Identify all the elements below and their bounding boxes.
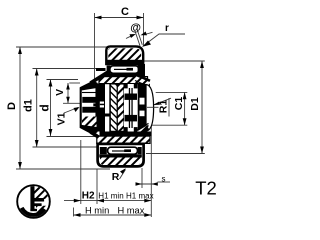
detail bottom arc <box>21 208 44 215</box>
svg-text:r: r <box>165 23 169 34</box>
arrow C1 top <box>183 92 187 99</box>
bore strip top-right bit <box>134 84 138 88</box>
ext line H left x73.5 <box>73 208 75 217</box>
set screw upper bar <box>125 94 138 100</box>
svg-text:s: s <box>162 174 166 183</box>
core bore strip with set screw I-beam <box>124 84 138 132</box>
seal right blob top <box>138 64 145 75</box>
dim d1 line <box>36 69 38 148</box>
raceway band bottom <box>99 154 142 157</box>
collar lower hatch <box>82 117 97 133</box>
outer ring bottom block <box>98 144 144 167</box>
dim V bottom extension <box>63 102 80 104</box>
svg-text:H1 min: H1 min <box>98 192 123 201</box>
bore strip bottom-right bit <box>134 127 138 131</box>
dim D1 line <box>201 61 203 154</box>
svg-text:R: R <box>112 171 120 183</box>
svg-text:H1 max: H1 max <box>126 192 154 201</box>
dim V top extension <box>69 82 80 84</box>
collar junction band B top <box>81 82 97 91</box>
core white strip borders <box>105 84 110 132</box>
collar junction band A bottom <box>90 130 108 145</box>
dim d bottom extension <box>47 136 98 138</box>
dim D top extension <box>16 46 118 48</box>
dim C right extension <box>143 13 145 46</box>
top seal row <box>104 64 146 77</box>
step black top <box>96 68 106 71</box>
seal left blob top <box>107 66 111 74</box>
core hatch left column (inner ring section) <box>110 84 117 131</box>
arrow R1 slant tip <box>153 102 160 105</box>
dim d1 bottom extension <box>33 146 99 148</box>
ext line x151.3 <box>150 123 152 217</box>
dim D1 bottom extension <box>146 153 205 155</box>
dim V line <box>67 83 69 103</box>
flinger top thin slant <box>135 81 150 88</box>
collar set screw bar 1 <box>82 97 96 103</box>
seal right blob bottom <box>138 147 142 154</box>
collar junction band A top <box>90 71 108 86</box>
right wall slot lower <box>140 111 145 117</box>
svg-text:d: d <box>37 104 51 111</box>
bottom hatch <box>100 158 141 166</box>
arrow d1 top <box>35 69 39 76</box>
screw hole wall right <box>131 88 132 128</box>
collar upper face line <box>82 92 97 94</box>
arrow groove left <box>130 34 136 38</box>
core left wall black <box>97 84 104 132</box>
svg-text:H max: H max <box>118 206 145 216</box>
core hatch right column (sleeve section) <box>117 84 124 131</box>
arrow H1 right <box>144 199 151 203</box>
svg-text:H min: H min <box>85 206 109 216</box>
svg-text:d1: d1 <box>23 99 35 112</box>
label r leader <box>143 34 186 47</box>
svg-text:R1: R1 <box>158 100 170 114</box>
flinger top hatch <box>135 76 150 86</box>
bore strip white <box>124 84 138 132</box>
flinger bottom thin slant <box>134 123 149 132</box>
arrow s right outside <box>151 182 158 185</box>
label R leader <box>120 170 126 180</box>
label R1 underline <box>168 98 170 117</box>
arrow V1 leader <box>74 107 80 112</box>
detail hatch lower right <box>36 206 49 213</box>
seal left blob bottom <box>100 147 107 154</box>
bore strip bottom-left bit <box>124 127 128 131</box>
dim C1 bottom extension <box>151 124 187 126</box>
dim C left extension <box>94 13 96 79</box>
svg-text:D1: D1 <box>189 97 201 111</box>
detail circle outline <box>17 185 50 218</box>
core right wall black <box>138 84 146 132</box>
arrow H2 right / H1 left outside <box>97 199 104 203</box>
detail white gap between arms <box>35 202 45 204</box>
seal inner line top <box>114 69 133 70</box>
arrow d top <box>49 80 53 87</box>
arrowheads <box>18 16 204 217</box>
groove arrow lead right <box>147 32 153 34</box>
arrow D1 bottom <box>200 147 204 154</box>
groove ext line A <box>135 31 140 46</box>
inner ring bottom black band <box>100 132 152 137</box>
dim D bottom extension <box>16 168 110 170</box>
ext line x142 <box>141 168 143 188</box>
arrow d bottom <box>49 129 53 136</box>
dim C line <box>95 17 144 19</box>
arrow H right <box>144 213 151 217</box>
collar set screw bar 2 <box>82 107 96 113</box>
svg-text:T2: T2 <box>195 178 216 199</box>
collar body <box>81 82 97 134</box>
svg-text:@: @ <box>130 22 141 34</box>
arrow V top <box>66 83 70 90</box>
ext line x80.8 collar <box>80 140 82 204</box>
svg-text:H2: H2 <box>82 191 95 202</box>
seal stadium top <box>110 66 139 74</box>
svg-text:V: V <box>54 89 66 96</box>
seal stadium bottom <box>108 147 138 154</box>
band under seals top <box>104 74 146 77</box>
inner ring top hatch band <box>99 74 150 87</box>
svg-text:V1: V1 <box>55 112 67 125</box>
label s underline <box>158 181 171 183</box>
set screw lower bar <box>125 115 138 122</box>
seal inner line bottom <box>112 150 130 151</box>
arrow D1 top <box>200 61 204 68</box>
detail arm 2 <box>34 203 41 206</box>
detail hatch upper right <box>34 185 50 199</box>
arrow H left <box>74 213 81 217</box>
dim d line <box>50 80 52 137</box>
dim d top extension <box>47 79 79 81</box>
svg-text:C: C <box>121 6 129 18</box>
core left wall slot tick <box>100 104 105 106</box>
outer ring sphere arc right <box>146 85 159 132</box>
bore strip top-left bit <box>124 84 128 88</box>
screw hole wall left <box>129 88 130 128</box>
flinger top thick slant <box>135 74 150 81</box>
dim R1 slant leader <box>154 98 171 105</box>
core white strip mid tick <box>105 114 110 117</box>
dim H2/H1 line <box>64 200 151 202</box>
arrow H2 left outside <box>74 199 81 203</box>
flinger bottom thick slant <box>134 128 149 137</box>
arrow R leader tip <box>120 168 126 175</box>
arrow s left outside <box>136 182 143 185</box>
outer ring top raceway band <box>106 60 144 64</box>
core left wall screw hole slot <box>100 102 105 108</box>
arrow D top <box>18 47 22 54</box>
flinger bottom hatch <box>134 125 149 137</box>
arrow r leader tip <box>143 41 152 47</box>
svg-text:C1: C1 <box>173 97 185 111</box>
outer ring top block <box>106 46 144 64</box>
arrow C1 bottom <box>183 118 187 125</box>
dim s line <box>137 183 158 185</box>
arrow d1 bottom <box>35 140 39 147</box>
collar set screw mid tick <box>93 103 96 106</box>
arrow C right <box>137 16 144 20</box>
detail arm 1 <box>34 198 44 202</box>
right wall bar <box>138 84 146 132</box>
seal tick bottom <box>124 149 131 152</box>
label V1 leader <box>64 108 78 114</box>
seal tick top <box>127 68 134 71</box>
groove ext line B <box>137 30 142 45</box>
groove arrow lead left <box>126 35 134 39</box>
dim D1 top extension <box>143 60 204 62</box>
ext line x97 <box>96 169 98 204</box>
dim d1 top extension <box>33 68 97 70</box>
collar junction band B bottom <box>81 125 97 134</box>
detail stem foot <box>30 209 37 211</box>
dim C1 line <box>184 92 186 125</box>
right wall slot upper <box>140 98 145 105</box>
dim H line <box>74 214 152 216</box>
dim C1 top extension <box>156 91 188 93</box>
svg-text:D: D <box>6 102 18 110</box>
arrow V bottom <box>66 97 70 104</box>
arrow groove right <box>141 32 148 36</box>
arrow D bottom <box>18 162 22 169</box>
detail stem <box>30 186 34 211</box>
arrow C left <box>95 16 102 20</box>
dim D line <box>19 47 21 169</box>
sphere equator tick <box>147 106 159 108</box>
inner ring bottom hatch band <box>97 136 150 143</box>
